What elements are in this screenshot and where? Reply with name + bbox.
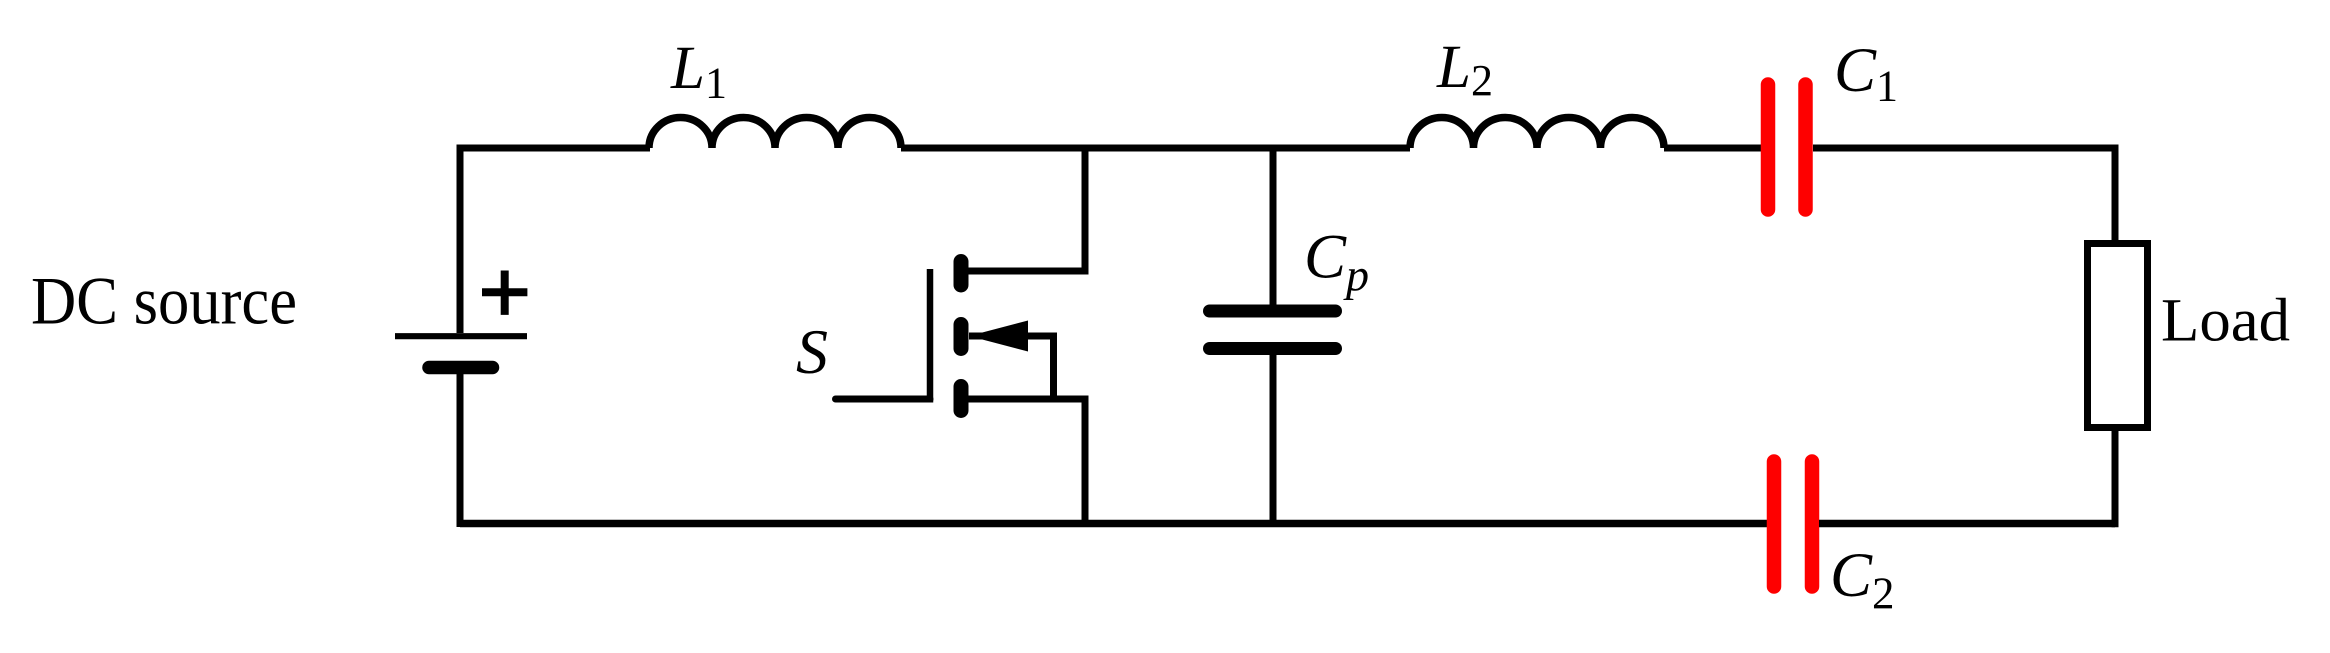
battery DC source: positive plate xyxy=(395,333,527,339)
capacitor Cp bottom plate xyxy=(1210,342,1336,355)
capacitor C2 left plate (red) xyxy=(1767,462,1782,587)
svg-text:S: S xyxy=(796,316,828,387)
transistor S body contact bar xyxy=(954,325,969,349)
svg-text:DC source: DC source xyxy=(31,264,297,339)
resistor Load (rectangle) xyxy=(2088,244,2148,428)
transistor S gate vertical bar xyxy=(927,269,934,403)
inductor L1 xyxy=(649,118,901,149)
capacitor C2 right plate (red) xyxy=(1805,462,1820,587)
capacitor C1 right plate (red) xyxy=(1798,85,1813,210)
wire: source vertical down to bottom rail xyxy=(1082,399,1089,527)
transistor S body-diode arrow (pointing left) xyxy=(969,321,1028,352)
wire: MOSFET drain lead to right xyxy=(961,268,1085,275)
wire: body lead horizontal and vertical down to source lead xyxy=(969,336,1054,399)
wire: top rail, L1 to L2 (through drain and Cp junctions) xyxy=(901,145,1410,152)
battery DC source: negative plate xyxy=(429,361,493,375)
capacitor Cp top plate xyxy=(1210,305,1336,318)
transistor S source contact bar xyxy=(954,387,969,411)
transistor S drain contact bar xyxy=(954,262,969,286)
wire: Cp vertical from bottom plate to bottom rail xyxy=(1270,349,1277,528)
wire: left vertical from top rail to battery + plate xyxy=(457,145,464,334)
wire: top rail, C1 to load corner xyxy=(1813,145,2119,152)
wire: right vertical from load to bottom rail xyxy=(2112,431,2119,527)
battery polarity plus sign xyxy=(482,271,527,315)
wire: drain vertical up to top rail xyxy=(1082,148,1089,275)
wire: left vertical from battery - plate to bottom rail xyxy=(457,367,464,527)
wire: MOSFET gate lead xyxy=(836,396,931,403)
svg-text:Load: Load xyxy=(2161,288,2290,355)
wire: bottom rail, C2 to load xyxy=(1819,520,2115,528)
wire: right vertical from top rail to load xyxy=(2112,148,2119,243)
wire: MOSFET source lead to right xyxy=(961,396,1089,403)
wire: top rail, battery to L1 xyxy=(457,145,651,152)
wire: Cp vertical from top rail to top plate xyxy=(1270,148,1277,311)
capacitor C1 left plate (red) xyxy=(1761,85,1776,210)
wire: top rail, L2 to C1 xyxy=(1664,145,1761,152)
inductor L2 xyxy=(1410,118,1664,149)
wire: bottom rail, battery to C2 xyxy=(460,520,1767,528)
